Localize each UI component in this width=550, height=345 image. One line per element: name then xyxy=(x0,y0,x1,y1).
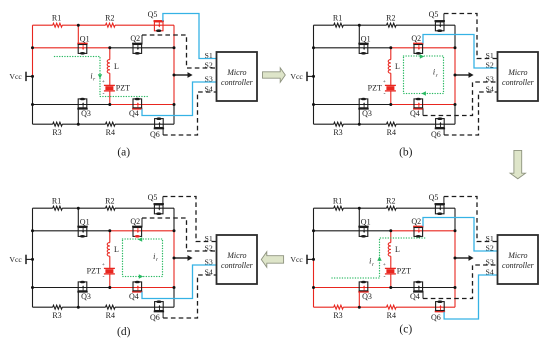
wire S4 route Q6 gate (c) blue xyxy=(444,275,497,319)
transistor Q2 (c) xyxy=(411,217,423,238)
wire right vertical upper (b) xyxy=(454,25,456,48)
svg-text:Micro: Micro xyxy=(226,68,246,77)
wire top rail (d) xyxy=(33,207,175,209)
wire left vertical lower (b) xyxy=(313,76,315,124)
wire second rail right (d) xyxy=(110,230,174,232)
svg-text:Q5: Q5 xyxy=(429,10,439,19)
svg-text:-: - xyxy=(103,275,105,281)
block arrow (b) to (c) xyxy=(510,150,525,178)
Vcc supply symbol (d) xyxy=(9,255,32,265)
current label i_r (a) xyxy=(90,71,96,82)
wire third rail right (a) xyxy=(110,104,174,106)
svg-text:S2: S2 xyxy=(205,60,213,69)
transistor Q3 (c) xyxy=(358,281,372,301)
transistor Q5 (c) xyxy=(429,193,445,215)
svg-text:Vcc: Vcc xyxy=(290,255,303,264)
wire third rail right (b) xyxy=(391,104,455,106)
wire S2 route Q2 gate (b) blue xyxy=(423,35,498,69)
wire S1 route Q5 gate (c) dash xyxy=(444,197,498,242)
svg-text:Q1: Q1 xyxy=(361,217,371,226)
wire left vertical upper (d) xyxy=(32,208,34,259)
svg-text:PZT: PZT xyxy=(368,84,382,93)
transistor Q2 (a) xyxy=(130,34,142,55)
subfigure (b) xyxy=(290,10,538,158)
wire bottom rail (d) xyxy=(33,288,175,308)
wire S3 route Q4 gate (d) blue xyxy=(142,265,217,299)
svg-text:+: + xyxy=(102,79,105,85)
svg-text:R2: R2 xyxy=(386,196,395,205)
svg-text:S2: S2 xyxy=(205,243,213,252)
current label i_r (b) xyxy=(433,68,439,79)
svg-text:R2: R2 xyxy=(105,196,114,205)
signal labels S1-S4 (a) xyxy=(205,51,213,94)
Vcc supply symbol (a) xyxy=(9,72,32,82)
wire S3 route Q4 gate (a) blue xyxy=(142,82,217,116)
PZT polarity marks (b) xyxy=(383,79,386,98)
svg-text:L: L xyxy=(395,62,400,71)
wire S2 route Q2 gate (d) dash xyxy=(142,218,217,251)
svg-text:+: + xyxy=(102,262,105,268)
svg-text:Micro: Micro xyxy=(507,68,527,77)
micro controller box (d) xyxy=(217,235,258,284)
transistor Q5 (b) xyxy=(429,10,445,32)
svg-text:controller: controller xyxy=(502,78,535,87)
svg-text:R2: R2 xyxy=(386,13,395,22)
transistor Q6 (d) xyxy=(150,300,164,322)
resistor R1 (a) xyxy=(52,13,62,27)
wire S2 route Q2 gate (c) blue xyxy=(423,218,498,252)
wire third rail left (c) xyxy=(314,287,391,289)
svg-text:Micro: Micro xyxy=(507,251,527,260)
resonant current loop i_r (c) xyxy=(332,238,427,278)
svg-text:S3: S3 xyxy=(205,257,213,266)
wire left vertical upper (a) xyxy=(32,25,34,76)
inductor L (a) xyxy=(107,48,119,86)
resonant current loop i_r (b) xyxy=(404,54,444,95)
micro controller box (a) xyxy=(217,52,258,101)
signal labels S1-S4 (c) xyxy=(486,234,494,276)
junction nodes (c) xyxy=(312,207,457,309)
wire right vertical upper (a) xyxy=(173,25,175,48)
PZT polarity marks (a) xyxy=(102,79,105,98)
transistor Q4 (b) xyxy=(410,98,423,119)
svg-text:R1: R1 xyxy=(333,13,342,22)
svg-text:S3: S3 xyxy=(486,74,494,83)
svg-text:Q6: Q6 xyxy=(431,130,441,139)
bridge output arrow (a) xyxy=(174,72,193,78)
piezo element PZT (c) xyxy=(385,266,411,287)
svg-text:S1: S1 xyxy=(486,51,494,60)
piezo element PZT (b) xyxy=(368,84,396,105)
svg-text:Q1: Q1 xyxy=(80,217,90,226)
svg-text:Q3: Q3 xyxy=(81,109,91,118)
svg-text:Q6: Q6 xyxy=(150,313,160,322)
transistor Q1 (a) xyxy=(77,34,89,54)
svg-text:R4: R4 xyxy=(387,311,396,320)
bridge output arrow (c) xyxy=(455,255,474,261)
resistor R2 (a) xyxy=(105,13,115,27)
transistor Q6 (b) xyxy=(431,117,445,139)
wire right vertical upper (c) xyxy=(454,208,456,231)
svg-text:Q5: Q5 xyxy=(148,10,158,19)
svg-text:+: + xyxy=(383,79,386,85)
wire left vertical lower (d) xyxy=(32,259,34,307)
svg-text:PZT: PZT xyxy=(397,266,411,275)
svg-text:Q3: Q3 xyxy=(81,292,91,301)
resistor R4 (b) xyxy=(387,122,397,137)
wire S4 route Q6 gate (b) dash xyxy=(444,92,497,135)
transistor Q1 (c) xyxy=(358,217,370,237)
svg-text:S1: S1 xyxy=(205,51,213,60)
resistor R4 (a) xyxy=(106,122,116,137)
svg-text:S4: S4 xyxy=(205,84,213,93)
svg-text:Q5: Q5 xyxy=(148,193,158,202)
svg-text:+: + xyxy=(383,262,386,268)
wire third rail right (d) xyxy=(110,287,174,289)
micro controller box (b) xyxy=(498,52,539,101)
resistor R2 (c) xyxy=(386,196,396,210)
wire right vertical middle (c) xyxy=(454,231,456,288)
svg-text:PZT: PZT xyxy=(87,267,101,276)
svg-text:(b): (b) xyxy=(399,146,413,158)
svg-text:Q2: Q2 xyxy=(411,34,421,43)
wire top rail (c) xyxy=(314,207,456,209)
block arrow (c) to (d) xyxy=(261,252,283,268)
svg-text:Q1: Q1 xyxy=(361,34,371,43)
wire right vertical middle (b) xyxy=(454,48,456,105)
transistor Q6 (c) xyxy=(431,300,445,322)
resistor R3 (a) xyxy=(52,122,62,137)
svg-text:Q2: Q2 xyxy=(130,217,140,226)
micro controller box (c) xyxy=(498,235,539,284)
transistor Q2 (b) xyxy=(411,34,423,55)
subfigure (c) xyxy=(290,193,538,335)
svg-text:S3: S3 xyxy=(486,257,494,266)
wire left vertical lower (c) xyxy=(313,259,315,307)
svg-text:Q5: Q5 xyxy=(429,193,439,202)
svg-text:Q1: Q1 xyxy=(80,34,90,43)
svg-text:L: L xyxy=(395,245,400,254)
wire third rail left (a) xyxy=(33,104,110,106)
wire second rail left (c) xyxy=(314,230,391,232)
transistor Q4 (d) xyxy=(129,281,142,302)
svg-text:R4: R4 xyxy=(106,128,115,137)
wire S4 route Q6 gate (d) dash xyxy=(163,275,216,318)
resistor R4 (d) xyxy=(106,305,116,320)
svg-text:S2: S2 xyxy=(486,243,494,252)
piezo element PZT (a) xyxy=(104,83,130,104)
wire second rail left (a) xyxy=(33,47,110,49)
resistor R3 (d) xyxy=(52,305,62,320)
resistor R3 (b) xyxy=(333,122,343,137)
svg-text:S4: S4 xyxy=(486,84,494,93)
svg-text:(a): (a) xyxy=(117,146,130,158)
resistor R2 (b) xyxy=(386,13,396,27)
svg-text:Q4: Q4 xyxy=(129,109,139,118)
wire S4 route Q6 gate (a) dash xyxy=(163,92,216,135)
wire Q3 gate stub from R3/R4 tap (b) xyxy=(358,109,360,125)
junction nodes (d) xyxy=(31,207,176,309)
wire Q3 gate stub from R3/R4 tap (c) xyxy=(358,292,360,308)
inductor L (b) xyxy=(388,48,400,86)
svg-text:controller: controller xyxy=(221,261,254,270)
svg-text:Vcc: Vcc xyxy=(290,72,303,81)
transistor Q3 (a) xyxy=(77,98,91,118)
wire second rail right (c) xyxy=(391,230,455,232)
svg-text:R4: R4 xyxy=(106,311,115,320)
wire S1 route Q5 gate (b) dash xyxy=(444,14,498,59)
wire right vertical upper (d) xyxy=(173,208,175,231)
wire left vertical upper (b) xyxy=(313,25,315,76)
wire second rail right (a) xyxy=(110,47,174,49)
inductor L (d) xyxy=(107,231,119,269)
transistor Q4 (c) xyxy=(410,281,423,302)
resistor R2 (d) xyxy=(105,196,115,210)
subfigure (d) xyxy=(9,193,257,338)
svg-text:-: - xyxy=(384,92,386,98)
svg-text:Q3: Q3 xyxy=(362,109,372,118)
transistor Q3 (d) xyxy=(77,281,91,301)
wire Q1 gate stub from R1/R2 tap (b) xyxy=(358,25,360,43)
Vcc supply symbol (c) xyxy=(290,255,313,265)
svg-text:Q6: Q6 xyxy=(150,130,160,139)
wire S1 route Q5 gate (a) blue xyxy=(163,14,217,59)
svg-text:(d): (d) xyxy=(117,326,131,338)
wire bottom rail (c) xyxy=(314,288,456,308)
junction nodes (b) xyxy=(312,24,457,126)
transistor Q2 (d) xyxy=(130,217,142,238)
svg-text:Vcc: Vcc xyxy=(9,72,22,81)
wire second rail left (d) xyxy=(33,230,110,232)
resistor R1 (d) xyxy=(52,196,62,210)
resistor R1 (b) xyxy=(333,13,343,27)
svg-text:R3: R3 xyxy=(333,128,342,137)
resistor R4 (c) xyxy=(387,305,397,320)
svg-text:Q2: Q2 xyxy=(411,217,421,226)
block arrow (a) to (b) xyxy=(263,68,286,83)
inductor L (c) xyxy=(388,231,400,269)
current label i_r (d) xyxy=(153,252,159,263)
wire Q3 gate stub from R3/R4 tap (a) xyxy=(77,109,79,125)
svg-text:S4: S4 xyxy=(205,267,213,276)
signal labels S1-S4 (d) xyxy=(205,234,213,276)
bridge output arrow (b) xyxy=(455,72,474,78)
svg-text:R4: R4 xyxy=(387,128,396,137)
svg-text:Q2: Q2 xyxy=(130,34,140,43)
svg-text:R2: R2 xyxy=(105,13,114,22)
PZT polarity marks (d) xyxy=(102,262,105,281)
resonant current loop i_r (d) xyxy=(123,237,163,278)
svg-text:controller: controller xyxy=(221,78,254,87)
wire Q1 gate stub from R1/R2 tap (a) xyxy=(77,25,79,43)
transistor Q5 (a) xyxy=(148,10,164,32)
piezo element PZT (d) xyxy=(87,267,115,288)
svg-text:PZT: PZT xyxy=(116,83,130,92)
svg-text:R3: R3 xyxy=(52,128,61,137)
wire top rail (a) xyxy=(33,24,175,26)
resistor R1 (c) xyxy=(333,196,343,210)
svg-text:S4: S4 xyxy=(486,267,494,276)
bridge output arrow (d) xyxy=(174,255,193,261)
wire third rail left (d) xyxy=(33,287,110,289)
svg-text:S1: S1 xyxy=(486,234,494,243)
transistor Q4 (a) xyxy=(129,98,142,119)
wire S3 route Q4 gate (c) dash xyxy=(423,265,498,299)
wire Q1 gate stub from R1/R2 tap (d) xyxy=(77,208,79,226)
svg-text:Micro: Micro xyxy=(226,251,246,260)
wire right vertical middle (d) xyxy=(173,231,175,288)
svg-text:Q4: Q4 xyxy=(129,292,139,301)
wire left vertical upper (c) xyxy=(313,208,315,259)
wire right vertical middle (a) xyxy=(173,48,175,105)
transistor Q3 (b) xyxy=(358,98,372,118)
wire left vertical lower (a) xyxy=(32,76,34,124)
wire third rail left (b) xyxy=(314,104,391,106)
PZT polarity marks (c) xyxy=(383,262,386,281)
svg-text:R1: R1 xyxy=(52,13,61,22)
svg-text:R3: R3 xyxy=(333,311,342,320)
svg-text:R1: R1 xyxy=(52,196,61,205)
wire Q3 gate stub from R3/R4 tap (d) xyxy=(77,292,79,308)
wire second rail right (b) xyxy=(391,47,455,49)
subfigure (a) xyxy=(9,10,257,158)
svg-text:Q6: Q6 xyxy=(431,313,441,322)
transistor Q5 (d) xyxy=(148,193,164,215)
svg-text:controller: controller xyxy=(502,261,535,270)
svg-text:L: L xyxy=(114,245,119,254)
transistor Q1 (d) xyxy=(77,217,89,237)
current label i_r (c) xyxy=(369,257,375,268)
svg-text:S1: S1 xyxy=(205,234,213,243)
transistor Q1 (b) xyxy=(358,34,370,54)
svg-text:(c): (c) xyxy=(399,324,412,336)
svg-text:R3: R3 xyxy=(52,311,61,320)
svg-text:L: L xyxy=(114,62,119,71)
wire top rail (b) xyxy=(314,24,456,26)
wire bottom rail (b) xyxy=(314,105,456,125)
signal labels S1-S4 (b) xyxy=(486,51,494,94)
wire third rail right (c) xyxy=(391,287,455,289)
transistor Q6 (a) xyxy=(150,117,164,139)
wire second rail left (b) xyxy=(314,47,391,49)
svg-text:Q4: Q4 xyxy=(410,109,420,118)
resistor R3 (c) xyxy=(333,305,343,320)
junction nodes (a) xyxy=(31,24,176,126)
wire S2 route Q2 gate (a) dash xyxy=(142,35,217,68)
svg-text:-: - xyxy=(384,275,386,281)
wire S3 route Q4 gate (b) dash xyxy=(423,82,498,116)
svg-text:S2: S2 xyxy=(486,60,494,69)
svg-text:Vcc: Vcc xyxy=(9,255,22,264)
svg-text:Q3: Q3 xyxy=(362,292,372,301)
svg-text:S3: S3 xyxy=(205,74,213,83)
wire bottom rail (a) xyxy=(33,105,175,125)
wire Q1 gate stub from R1/R2 tap (c) xyxy=(358,208,360,226)
svg-text:Q4: Q4 xyxy=(410,292,420,301)
svg-text:R1: R1 xyxy=(333,196,342,205)
resonant current loop i_r (a) xyxy=(55,57,148,97)
wire S1 route Q5 gate (d) dash xyxy=(163,197,217,242)
Vcc supply symbol (b) xyxy=(290,72,313,82)
